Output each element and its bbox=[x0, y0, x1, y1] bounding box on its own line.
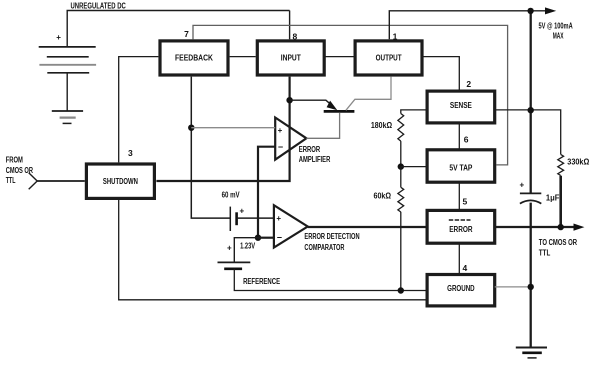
svg-text:60kΩ: 60kΩ bbox=[374, 192, 392, 201]
svg-text:ERROR DETECTION: ERROR DETECTION bbox=[304, 232, 359, 241]
wire battery to ground bbox=[66, 73, 68, 111]
wire error amp minus loop down to reference node bbox=[258, 147, 275, 238]
wire comparator output to ERROR block bbox=[308, 226, 427, 228]
svg-text:8: 8 bbox=[293, 32, 298, 42]
wire SHUTDOWN bottom to GROUND block bbox=[119, 200, 427, 300]
wire FEEDBACK pin down bbox=[191, 77, 230, 219]
wire input arrow to SHUTDOWN bbox=[37, 180, 85, 182]
wire reference node to comparator minus input bbox=[258, 237, 274, 239]
svg-text:+: + bbox=[240, 207, 245, 216]
svg-text:7: 7 bbox=[184, 29, 189, 39]
wire feedback tap line pin7 to 5V TAP right side bbox=[193, 25, 508, 165]
node UNREGULATED DC label bbox=[71, 1, 126, 10]
transistor Q1 PNP pass transistor bbox=[290, 77, 391, 139]
svg-text:−: − bbox=[277, 233, 282, 243]
wire 60mV cell to comparator plus input bbox=[237, 217, 274, 219]
svg-text:FROM: FROM bbox=[6, 156, 23, 165]
resistor R1 180k bbox=[371, 114, 404, 142]
block FEEDBACK pin 7 bbox=[160, 41, 228, 75]
node error amplifier label bbox=[299, 145, 331, 164]
svg-text:ERROR: ERROR bbox=[299, 145, 321, 154]
svg-text:3: 3 bbox=[128, 148, 133, 158]
wire 1.23V battery to reference rail bbox=[234, 269, 427, 291]
wire SHUTDOWN right to INPUT pin line bbox=[156, 77, 289, 181]
wire 330k bottom to error output line bbox=[559, 176, 562, 227]
wire error amp plus input bbox=[191, 127, 275, 129]
base bar bbox=[324, 110, 355, 113]
wire pin 1 to 5V output rail bbox=[389, 11, 546, 40]
wire OUTPUT right to SENSE pin 2 bbox=[422, 57, 459, 90]
op-amp U2 ERROR DETECTION COMPARATOR bbox=[274, 205, 308, 247]
svg-text:2: 2 bbox=[466, 79, 471, 89]
base lead down to error amplifier output bbox=[306, 113, 339, 139]
svg-text:TO CMOS OR: TO CMOS OR bbox=[539, 238, 577, 247]
svg-text:5: 5 bbox=[463, 197, 468, 207]
ground main ground symbol bottom right bbox=[516, 348, 547, 358]
emitter lead with arrow bbox=[290, 100, 331, 104]
node 5V @ 100mA MAX label bbox=[539, 22, 573, 41]
svg-text:1μF: 1μF bbox=[546, 193, 560, 202]
svg-text:SHUTDOWN: SHUTDOWN bbox=[103, 177, 138, 186]
junction dot ground rail bbox=[528, 284, 534, 290]
collector lead bbox=[346, 77, 391, 111]
svg-text:FEEDBACK: FEEDBACK bbox=[175, 54, 213, 63]
op-amp U1 ERROR AMPLIFIER body bbox=[275, 118, 306, 160]
node error detection comparator label bbox=[304, 232, 359, 252]
wire 60k bottom to reference rail bbox=[400, 212, 402, 291]
junction dot INPUT line to pass transistor emitter bbox=[286, 97, 292, 103]
wire 5V TAP to ERROR pin 5 bbox=[458, 182, 460, 210]
op-amp U1 ERROR AMPLIFIER input signs bbox=[278, 126, 284, 152]
node output arrow TO CMOS bbox=[574, 224, 585, 231]
svg-text:1: 1 bbox=[393, 32, 398, 42]
wire SENSE right to 5V rail and 330k bbox=[495, 110, 561, 154]
svg-text:330kΩ: 330kΩ bbox=[567, 158, 590, 167]
svg-text:AMPLIFIER: AMPLIFIER bbox=[299, 155, 331, 164]
wire GROUND block right to 5V rail bottom bbox=[495, 286, 531, 288]
battery 60 mV offset cell bbox=[230, 207, 244, 232]
svg-text:5V TAP: 5V TAP bbox=[449, 164, 473, 173]
junction dot feedback to error amp bbox=[188, 125, 194, 131]
resistor R3 330k bbox=[558, 154, 590, 175]
node FROM CMOS OR TTL labels bbox=[6, 156, 33, 186]
junction dot sense to 5V rail bbox=[528, 107, 534, 113]
wire unregulated dc top rail bbox=[67, 11, 289, 47]
wire 180k to tap node bbox=[400, 141, 402, 167]
svg-text:60 mV: 60 mV bbox=[222, 191, 241, 200]
svg-text:INPUT: INPUT bbox=[281, 54, 301, 63]
battery B1 unregulated supply bbox=[39, 33, 96, 73]
capacitor C1 1uF bbox=[520, 180, 560, 203]
block SHUTDOWN pin 3 bbox=[86, 164, 154, 198]
block GROUND pin 4 bbox=[427, 275, 495, 306]
wire ERROR to GROUND pin 4 bbox=[458, 243, 460, 274]
svg-text:TTL: TTL bbox=[539, 249, 551, 258]
block INPUT pin 8 bbox=[257, 41, 324, 75]
resistor R2 60k bbox=[374, 167, 404, 212]
wire FEEDBACK to INPUT bbox=[230, 56, 256, 58]
block SENSE pin 2 bbox=[427, 91, 495, 123]
svg-text:COMPARATOR: COMPARATOR bbox=[304, 243, 344, 252]
battery 1.23V reference bbox=[218, 242, 256, 269]
svg-text:+: + bbox=[276, 214, 281, 223]
svg-text:ERROR: ERROR bbox=[449, 225, 473, 234]
svg-text:GROUND: GROUND bbox=[447, 284, 475, 293]
svg-text:OUTPUT: OUTPUT bbox=[376, 54, 402, 63]
svg-text:180kΩ: 180kΩ bbox=[371, 121, 393, 130]
ground battery ground symbol bbox=[52, 111, 83, 123]
junction dot reference rail bbox=[398, 287, 404, 293]
wire pin 8 stub from top rail to INPUT bbox=[289, 11, 291, 40]
wire INPUT to OUTPUT bbox=[324, 56, 355, 58]
svg-text:SENSE: SENSE bbox=[450, 101, 473, 110]
svg-text:TTL: TTL bbox=[6, 176, 16, 185]
wire SENSE to 5V TAP pin 6 bbox=[458, 123, 460, 150]
node 5V output arrow bbox=[545, 7, 556, 14]
wire SENSE left to resistor chain bbox=[401, 110, 426, 114]
junction dot tap node bbox=[398, 163, 404, 169]
svg-text:+: + bbox=[56, 33, 61, 42]
block ERROR pin 5 with overline bbox=[427, 210, 495, 243]
wire FEEDBACK left to SHUTDOWN pin 3 bbox=[119, 57, 159, 163]
svg-text:−: − bbox=[278, 142, 283, 152]
svg-text:UNREGULATED DC: UNREGULATED DC bbox=[71, 1, 126, 10]
wire ERROR block output to TO CMOS OR TTL bbox=[495, 226, 575, 228]
wire main 5V vertical rail bbox=[530, 11, 532, 348]
node TO CMOS OR TTL label bbox=[539, 238, 577, 258]
svg-text:REFERENCE: REFERENCE bbox=[243, 277, 280, 286]
svg-text:1.23V: 1.23V bbox=[240, 242, 255, 251]
junction dot 5V rail top bbox=[527, 8, 533, 14]
svg-text:+: + bbox=[227, 244, 232, 253]
block OUTPUT pin 1 bbox=[355, 41, 422, 75]
wire reference node to 1.23V battery bbox=[234, 238, 258, 263]
block 5V TAP pin 6 bbox=[427, 150, 495, 182]
junction dot 330k to error line bbox=[558, 224, 564, 230]
node input chevron arrow bbox=[29, 173, 38, 190]
svg-text:4: 4 bbox=[463, 263, 468, 273]
svg-text:+: + bbox=[278, 126, 283, 135]
svg-text:6: 6 bbox=[464, 135, 469, 145]
junction dot reference node on comparator minus bbox=[255, 235, 261, 241]
wire tap node to 5V TAP block bbox=[401, 166, 427, 168]
svg-text:5V @ 100mA: 5V @ 100mA bbox=[539, 22, 573, 31]
svg-text:+: + bbox=[520, 180, 525, 189]
svg-text:MAX: MAX bbox=[553, 31, 564, 40]
